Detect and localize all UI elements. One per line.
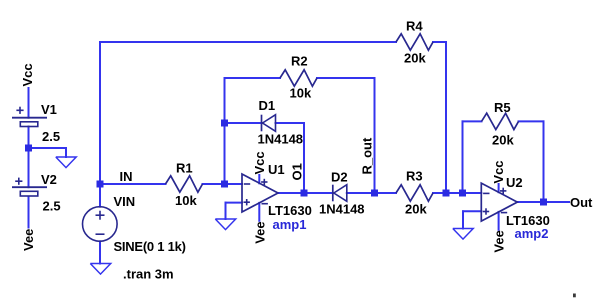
wire IN node up to top feedback row	[99, 42, 101, 184]
svg-text:20k: 20k	[492, 133, 514, 148]
wire R2 right to R_out corner	[317, 77, 375, 79]
wire V2 bottom to Vee rail	[28, 197, 30, 228]
wire U1 Vee pin stub	[258, 203, 260, 221]
wire U1 Vcc pin stub	[258, 175, 260, 183]
wire mid junction to ground stub horizontal	[29, 147, 67, 149]
resistor R1 body	[166, 176, 203, 192]
node Out junction U2 output	[540, 199, 547, 206]
ground at U2 noninverting input	[453, 229, 473, 240]
wire R4 right corner	[433, 41, 446, 43]
wire ground stub vertical	[65, 148, 67, 157]
svg-text:Vee: Vee	[492, 230, 507, 252]
ground at U1 noninverting input	[215, 219, 235, 230]
cursor artifact mark	[573, 294, 576, 298]
svg-text:LT1630: LT1630	[268, 203, 312, 218]
wire R4 down to U2 input node	[445, 42, 447, 193]
svg-text:V2: V2	[41, 172, 57, 187]
wire R5 loop right vertical down to Out node	[543, 121, 545, 202]
svg-text:Vee: Vee	[252, 221, 267, 243]
VIN plus sign	[96, 211, 105, 220]
svg-text:R4: R4	[406, 19, 423, 34]
svg-text:O1: O1	[290, 163, 305, 180]
wire D2 anode to R3 left	[347, 192, 396, 194]
op-amp U2 triangle	[481, 183, 517, 221]
svg-text:2.5: 2.5	[43, 199, 61, 214]
op-amp U2 Vcc plus sign	[500, 188, 506, 194]
op-amp U1 triangle	[242, 174, 278, 212]
node junction R5 feedback	[459, 190, 466, 197]
svg-text:amp1: amp1	[273, 217, 307, 232]
wire top feedback row to R4 left	[100, 41, 396, 43]
wire U2 output to Out node	[517, 201, 543, 203]
wire vertical R2/D1 to U1 input junction	[224, 78, 226, 184]
node junction R4 feedback	[443, 190, 450, 197]
node IN junction	[97, 181, 104, 188]
wire U2 Vee pin stub	[498, 212, 500, 230]
wire R2 loop top left	[225, 77, 281, 79]
node R_out junction	[371, 190, 378, 197]
wire O1 vertical down to U1 output node	[303, 123, 305, 193]
svg-text:10k: 10k	[290, 86, 312, 101]
svg-text:10k: 10k	[175, 193, 197, 208]
wire V1 bottom to mid junction	[28, 127, 30, 149]
voltage source V2 battery symbol	[12, 178, 47, 196]
resistor R2 body	[280, 70, 317, 86]
svg-text:Vee: Vee	[21, 229, 36, 251]
svg-text:.tran 3m: .tran 3m	[123, 267, 174, 282]
op-amp U1 Vee minus sign	[262, 203, 268, 205]
node O1 junction U1 output	[301, 190, 308, 197]
voltage source V1 battery symbol	[12, 107, 47, 127]
svg-text:R5: R5	[494, 100, 511, 115]
wire U1 output to O1 node	[278, 192, 304, 194]
svg-text:IN: IN	[120, 169, 133, 184]
resistor R5 body	[482, 113, 519, 129]
svg-text:R2: R2	[291, 54, 308, 69]
wire O1 node to D2 cathode	[304, 192, 333, 194]
diode D1 body	[262, 115, 276, 132]
svg-text:D2: D2	[331, 170, 348, 185]
wire R3 right to U2 inverting input	[433, 192, 481, 194]
wire D1 anode to O1 vertical	[276, 122, 305, 124]
wire VIN bottom to ground	[99, 241, 101, 263]
ground below VIN	[90, 264, 110, 275]
op-amp U1 noninverting input plus sign	[244, 199, 250, 205]
wire mid junction to V2 top	[28, 148, 30, 187]
op-amp U2 Vee minus sign	[501, 212, 507, 214]
svg-text:VIN: VIN	[114, 194, 136, 209]
svg-text:20k: 20k	[405, 202, 427, 217]
svg-text:SINE(0 1 1k): SINE(0 1 1k)	[114, 239, 186, 254]
svg-text:amp2: amp2	[515, 226, 549, 241]
wire U1 noninverting down to ground	[225, 203, 227, 219]
wire R5 right to output corner	[519, 120, 544, 122]
op-amp U1 inverting input minus sign	[244, 183, 250, 185]
wire Vcc rail to V1 top	[28, 88, 30, 118]
svg-text:Vcc: Vcc	[20, 63, 35, 86]
op-amp U2 inverting input minus sign	[483, 192, 489, 194]
wire VIN top to IN node	[99, 184, 101, 207]
svg-text:Vcc: Vcc	[252, 151, 267, 174]
svg-text:R1: R1	[176, 161, 193, 176]
svg-text:R3: R3	[406, 169, 423, 184]
wire R5 loop left vertical	[462, 121, 464, 193]
svg-text:R_out: R_out	[360, 137, 375, 175]
ground near V1-V2 midpoint	[56, 157, 76, 168]
wire Out node to Out label	[544, 201, 570, 203]
node junction U1 inverting input	[221, 181, 228, 188]
wire U2 noninverting input left	[463, 210, 481, 212]
op-amp U1 Vcc plus sign	[261, 179, 267, 185]
VIN minus sign	[96, 233, 105, 235]
svg-text:20k: 20k	[404, 51, 426, 66]
wire D1 junction to D1 cathode	[225, 122, 262, 124]
wire R1 right to U1 inverting input	[203, 183, 243, 185]
wire R_out vertical down	[374, 78, 376, 193]
svg-text:U1: U1	[268, 162, 285, 177]
wire R5 loop top left	[463, 120, 482, 122]
node junction D1 row	[221, 120, 228, 127]
resistor R4 body	[396, 34, 433, 50]
node junction V1-V2 midpoint	[25, 145, 32, 152]
svg-text:1N4148: 1N4148	[319, 202, 365, 217]
voltage source VIN circle	[83, 207, 118, 242]
wire U2 noninverting down to ground	[462, 211, 464, 228]
wire IN node to R1 left	[100, 183, 166, 185]
svg-text:Out: Out	[570, 195, 593, 210]
svg-text:1N4148: 1N4148	[258, 132, 304, 147]
svg-text:2.5: 2.5	[42, 129, 60, 144]
svg-text:U2: U2	[506, 175, 523, 190]
wire U1 noninverting input left	[226, 202, 243, 204]
resistor R3 body	[396, 185, 433, 201]
svg-text:V1: V1	[41, 102, 57, 117]
op-amp U2 noninverting input plus sign	[483, 208, 489, 214]
wire U2 Vcc pin stub	[498, 184, 500, 192]
diode D2 body	[333, 185, 347, 202]
svg-text:D1: D1	[259, 98, 276, 113]
svg-text:Vcc: Vcc	[491, 160, 506, 183]
